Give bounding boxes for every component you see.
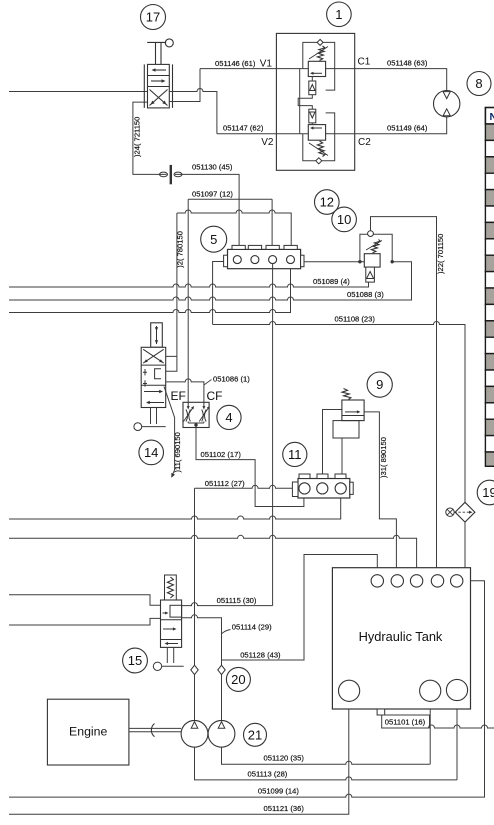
svg-text:)2( 780150: )2( 780150 [176, 231, 185, 268]
svg-text:C2: C2 [358, 137, 371, 148]
circled 14 [139, 440, 164, 465]
svg-text:20: 20 [231, 672, 245, 687]
circled 5 [201, 226, 227, 252]
U1 top pilot bracket [303, 42, 335, 90]
wire manifold right port to valve 10 [304, 261, 364, 263]
svg-text:051149 (64): 051149 (64) [387, 124, 428, 133]
junction dot A [358, 260, 361, 263]
svg-text:051089 (4): 051089 (4) [313, 277, 350, 286]
label 051086 (1) [213, 375, 250, 384]
U1 top spring [309, 46, 328, 61]
svg-text:051115 (30): 051115 (30) [217, 596, 257, 605]
valve V9 spring [342, 389, 351, 400]
wire U1 internal V1-V2 link [299, 69, 301, 134]
manifold M5 body [224, 249, 304, 268]
label C1 [358, 57, 371, 68]
wire pump2 riser [221, 675, 223, 721]
svg-text:EF: EF [171, 389, 186, 403]
valve V14 pilot section [151, 323, 163, 348]
wire filter to tank [464, 522, 466, 568]
filter F19 diamond [455, 502, 475, 522]
wire manifold stub3 feed [271, 199, 273, 245]
wire CF feed from valve 14 [166, 379, 204, 402]
check valve D1 [191, 665, 198, 674]
circled 17 [141, 5, 166, 30]
svg-text:051114 (29): 051114 (29) [232, 623, 272, 632]
tank top port 2 [391, 575, 403, 587]
svg-text:)11( 690150: )11( 690150 [173, 432, 182, 472]
junction dot B [391, 260, 394, 263]
svg-text:051147 (62): 051147 (62) [223, 124, 264, 133]
label 051113 (28) [248, 769, 288, 778]
manifold M5 top stubs [232, 245, 297, 249]
valve V14 body [141, 347, 166, 407]
valve V10 body [364, 254, 380, 282]
label CF [207, 389, 223, 403]
leader 051114 (29) [222, 630, 231, 634]
wire 051113 riser to tank [456, 701, 458, 780]
valve V14 center section detail [143, 369, 161, 387]
label 051089 (4) [313, 277, 350, 286]
wire tank return line [9, 535, 417, 575]
hydraulic tank box [332, 568, 470, 709]
valve V15 spring [165, 575, 177, 600]
wire V14 drain 051096 (11) [164, 387, 175, 478]
label V2 [261, 137, 274, 148]
wire 051087 (2) line [177, 210, 291, 245]
label 051147 (62) [223, 124, 264, 133]
svg-text:051112 (27): 051112 (27) [205, 479, 245, 488]
svg-text:Engine: Engine [69, 724, 107, 738]
svg-text:)22( 701150: )22( 701150 [436, 234, 445, 274]
wire 051102 (17) line [196, 428, 304, 507]
circled 12 [315, 190, 340, 215]
svg-text:051130 (45): 051130 (45) [192, 163, 233, 172]
manifold M11 top stubs [299, 474, 346, 479]
parts table [485, 108, 494, 467]
valve V9 pilot box [333, 421, 359, 438]
label 051096 (11) [173, 432, 182, 472]
check valve D2 [218, 665, 225, 674]
pump P1 [181, 720, 208, 747]
wire 051098 (13) line [364, 412, 396, 575]
label 051099 (14) [258, 787, 299, 796]
svg-text:12: 12 [320, 195, 334, 210]
manifold M5 ports [233, 256, 294, 264]
wire 051108 (23) line [213, 322, 465, 503]
wire V2-C2 line (051147/051149) [217, 117, 447, 134]
U1 top check valve [309, 77, 316, 95]
label Hydraulic Tank [359, 629, 443, 644]
circled 19 [477, 480, 494, 505]
FD4 output junction [188, 423, 204, 428]
manifold M11 ports [299, 483, 346, 494]
wire 051113 (28) line [195, 747, 458, 780]
valve V14 arrow section [144, 390, 164, 404]
label 051107 (22) [436, 234, 445, 274]
circled 11 [283, 442, 307, 466]
svg-text:14: 14 [144, 445, 158, 460]
svg-text:V2: V2 [261, 137, 274, 148]
svg-text:21: 21 [248, 727, 262, 742]
svg-text:051108 (23): 051108 (23) [335, 315, 376, 324]
U1 bottom spring [309, 141, 328, 157]
wire V1-C1 line (051146/051148) [200, 69, 447, 91]
wire 051120 riser to tank [429, 701, 431, 764]
valve V10 spring [366, 240, 382, 254]
FD4 CF restrictor [199, 402, 210, 423]
wire 051089 (4) bus line [9, 282, 369, 287]
svg-text:051086 (1): 051086 (1) [213, 375, 250, 384]
tank top port 4 [431, 575, 443, 587]
svg-text:V1: V1 [260, 58, 273, 69]
label 051098 (13) [379, 437, 388, 478]
wire 051121 (36) line [9, 701, 349, 814]
label V1 [260, 58, 273, 69]
U1 bottom check valve [309, 109, 316, 124]
valve V10 bracket [360, 234, 392, 261]
manifold M11 body [292, 479, 353, 499]
svg-text:)31( 890150: )31( 890150 [379, 437, 388, 478]
label 051088 (3) [347, 290, 384, 299]
engine box [47, 699, 128, 765]
label 051102 (17) [201, 450, 242, 459]
svg-text:5: 5 [210, 232, 217, 247]
svg-text:051099 (14): 051099 (14) [258, 787, 299, 796]
svg-text:4: 4 [225, 410, 232, 425]
tank top port 3 [410, 575, 422, 587]
wire inlet line to valve 15 lower [9, 618, 161, 625]
circled 4 [217, 405, 241, 429]
wire 051120 (35) line [222, 747, 431, 764]
wire EF feed vertical [187, 199, 189, 402]
label box 051101 (16) [382, 715, 430, 728]
U1 bottom pilot bracket [303, 113, 335, 161]
tank top port 5 [451, 575, 463, 587]
svg-text:051101 (16): 051101 (16) [385, 718, 426, 727]
wire return bus line 3 [9, 263, 291, 312]
wire 051115 (30) line [182, 603, 273, 606]
svg-text:051120 (35): 051120 (35) [264, 754, 305, 763]
svg-text:11: 11 [288, 447, 302, 462]
circled 21 [244, 723, 267, 746]
tank bottom port 2 [420, 680, 441, 701]
svg-text:C1: C1 [358, 57, 371, 68]
filter F19 bypass symbol [446, 508, 473, 516]
circled 15 [123, 648, 148, 673]
orifice 051130 (45) [160, 165, 183, 184]
wire valve 17 to V1 line (051146) [169, 69, 200, 102]
wire 051088 (3) bus line [9, 262, 412, 300]
wire V9 pilot drain [341, 438, 343, 474]
svg-text:051088 (3): 051088 (3) [347, 290, 384, 299]
valve V14 stem and lever [134, 408, 166, 431]
svg-text:19: 19 [482, 485, 494, 500]
label 051121 (36) [264, 804, 305, 813]
valve V17 position arrows [150, 68, 168, 105]
svg-text:10: 10 [337, 212, 351, 227]
engine shaft [129, 724, 181, 737]
motor M8 [434, 91, 460, 117]
label 051127 (42) [133, 117, 142, 157]
valve V17 lever handle [147, 39, 173, 65]
tank bottom port 3 [446, 679, 467, 700]
tank drain stub [377, 709, 385, 715]
label C2 [358, 137, 371, 148]
label EF [171, 389, 186, 403]
valve V14 X section [143, 349, 164, 363]
wire pump supply line to valve 17 [9, 91, 148, 93]
svg-text:051097 (12): 051097 (12) [192, 190, 233, 199]
wire valve 17 to V2 line (051147) [169, 89, 217, 134]
svg-text:Hydraulic Tank: Hydraulic Tank [359, 629, 443, 644]
valve V17 body [144, 64, 172, 108]
svg-text:17: 17 [146, 10, 160, 25]
wire 051128 (43) line [222, 555, 378, 661]
wire manifold stub1 feed [238, 199, 240, 245]
label 051114 (29) [232, 623, 272, 632]
pump P2 [208, 720, 235, 747]
label 051146 (61) [215, 59, 256, 68]
svg-text:N: N [490, 111, 494, 123]
svg-text:051146 (61): 051146 (61) [215, 59, 256, 68]
label 051149 (64) [387, 124, 428, 133]
wire manifold left port to 051108 [213, 262, 224, 325]
circled 20 [226, 667, 250, 691]
wire tank sense line [429, 725, 494, 728]
label 051128 (43) [240, 651, 281, 660]
circled 10 [332, 207, 357, 232]
svg-text:051113 (28): 051113 (28) [248, 769, 288, 778]
label 051097 (12) [192, 190, 233, 199]
FD4 EF restrictor [184, 402, 195, 423]
label 051112 (27) [205, 479, 245, 488]
wire inlet line to valve 15 upper [9, 595, 161, 606]
valve V9 body [342, 400, 364, 421]
svg-text:8: 8 [475, 76, 482, 91]
wire pump1 suction riser [194, 488, 196, 720]
svg-text:CF: CF [207, 389, 223, 403]
svg-text:9: 9 [376, 377, 383, 392]
wire V9 left to manifold 11 [323, 410, 342, 475]
svg-text:051121 (36): 051121 (36) [264, 804, 305, 813]
tank top port 1 [371, 575, 383, 587]
valve V15 stem and lever [153, 647, 183, 670]
circled 8 [467, 72, 491, 96]
circled 1 [327, 2, 352, 27]
label 051115 (30) [217, 596, 257, 605]
circled 9 [367, 372, 392, 397]
valve V10 pilot circle [368, 231, 374, 237]
wire 051097 (12) line [188, 198, 272, 200]
svg-text:1: 1 [335, 7, 342, 22]
U1 mid step link [298, 95, 312, 110]
tank bottom port 1 [339, 680, 360, 701]
label Engine [69, 724, 107, 738]
label 051148 (63) [387, 59, 428, 68]
U1 top counterbalance valve [308, 61, 325, 76]
wire orifice to 051097 junction [175, 174, 239, 199]
wire 051114 (29) line [182, 615, 222, 665]
wire 051107 (22) line [371, 217, 437, 574]
valve V15 body [161, 600, 182, 647]
label 051130 (45) [192, 163, 233, 172]
svg-text:051102 (17): 051102 (17) [201, 450, 242, 459]
component FD4 box [183, 402, 209, 427]
wire 051112 (27) line [195, 485, 293, 488]
svg-text:051128 (43): 051128 (43) [240, 651, 281, 660]
svg-text:051148 (63): 051148 (63) [387, 59, 428, 68]
component U1 outer box [276, 33, 354, 170]
wire 051127 (42) pilot line [133, 102, 167, 174]
leader 051086 (1) [204, 380, 212, 386]
U1 bottom diamond [316, 158, 322, 164]
wire return line to manifold 11 [9, 494, 341, 519]
label 051108 (23) [335, 315, 376, 324]
svg-text:)24( 721150: )24( 721150 [133, 117, 142, 157]
label 051120 (35) [264, 754, 305, 763]
wire 051099 (14) line [9, 581, 485, 797]
svg-text:15: 15 [128, 653, 142, 668]
wire valve14 right port riser [162, 213, 177, 371]
wire 051115 riser (manifold port3 down) [272, 263, 274, 605]
label 051087 (2) [176, 231, 185, 268]
U1 bottom counterbalance valve [308, 125, 325, 141]
U1 top diamond [317, 39, 323, 45]
